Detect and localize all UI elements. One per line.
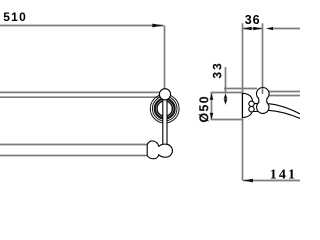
svg-text:510: 510 [3, 10, 27, 24]
leader arrowhead [266, 27, 273, 30]
bead detail upper [249, 101, 254, 106]
lower bar (front view) [0, 144, 148, 146]
upper bar (side view) [268, 92, 301, 96]
dimension line 141 [243, 180, 300, 182]
svg-text:141: 141 [270, 168, 297, 183]
arrowhead 141 [243, 179, 253, 183]
dimension line D50 [211, 93, 213, 119]
leader line from right [272, 28, 300, 30]
arrowhead 36 right [253, 27, 262, 31]
extension line segment into ball [262, 88, 264, 94]
extension line bar top [224, 88, 257, 90]
lower bar end finial and ball joint (front view, union silhouette) [147, 141, 172, 159]
arrowheads 33 [224, 93, 228, 99]
dimension line 510 [0, 25, 164, 27]
svg-text:33: 33 [210, 61, 224, 78]
upper pivot ball (side view) [257, 88, 270, 101]
svg-text:Ø50: Ø50 [197, 95, 211, 123]
lower pivot ball (side view) [257, 101, 269, 113]
arrowheads D50 [210, 93, 214, 100]
extension line flange top [211, 92, 243, 94]
bead detail lower [249, 107, 254, 112]
dimension line 33 [225, 67, 227, 94]
dimension line 36 [243, 28, 263, 30]
top bar (front view) [0, 91, 160, 93]
neck flange to ball (side view) [252, 104, 258, 112]
flange dome (side view) [243, 93, 253, 117]
wall extension line [242, 23, 244, 180]
extension line right of 510 [164, 26, 166, 89]
top ball finial (front view) [159, 89, 170, 100]
extension line flange bottom [211, 119, 243, 121]
arrowhead 510 right [152, 24, 163, 28]
mounting post (front view) [163, 98, 167, 146]
waist between pivot balls [259, 98, 267, 102]
bar axis extension line [262, 23, 264, 94]
flange rosette (front view) [150, 94, 179, 123]
svg-text:36: 36 [245, 13, 261, 27]
arrowhead 36 left [243, 27, 252, 31]
lower curved arm (side view) [268, 104, 300, 119]
